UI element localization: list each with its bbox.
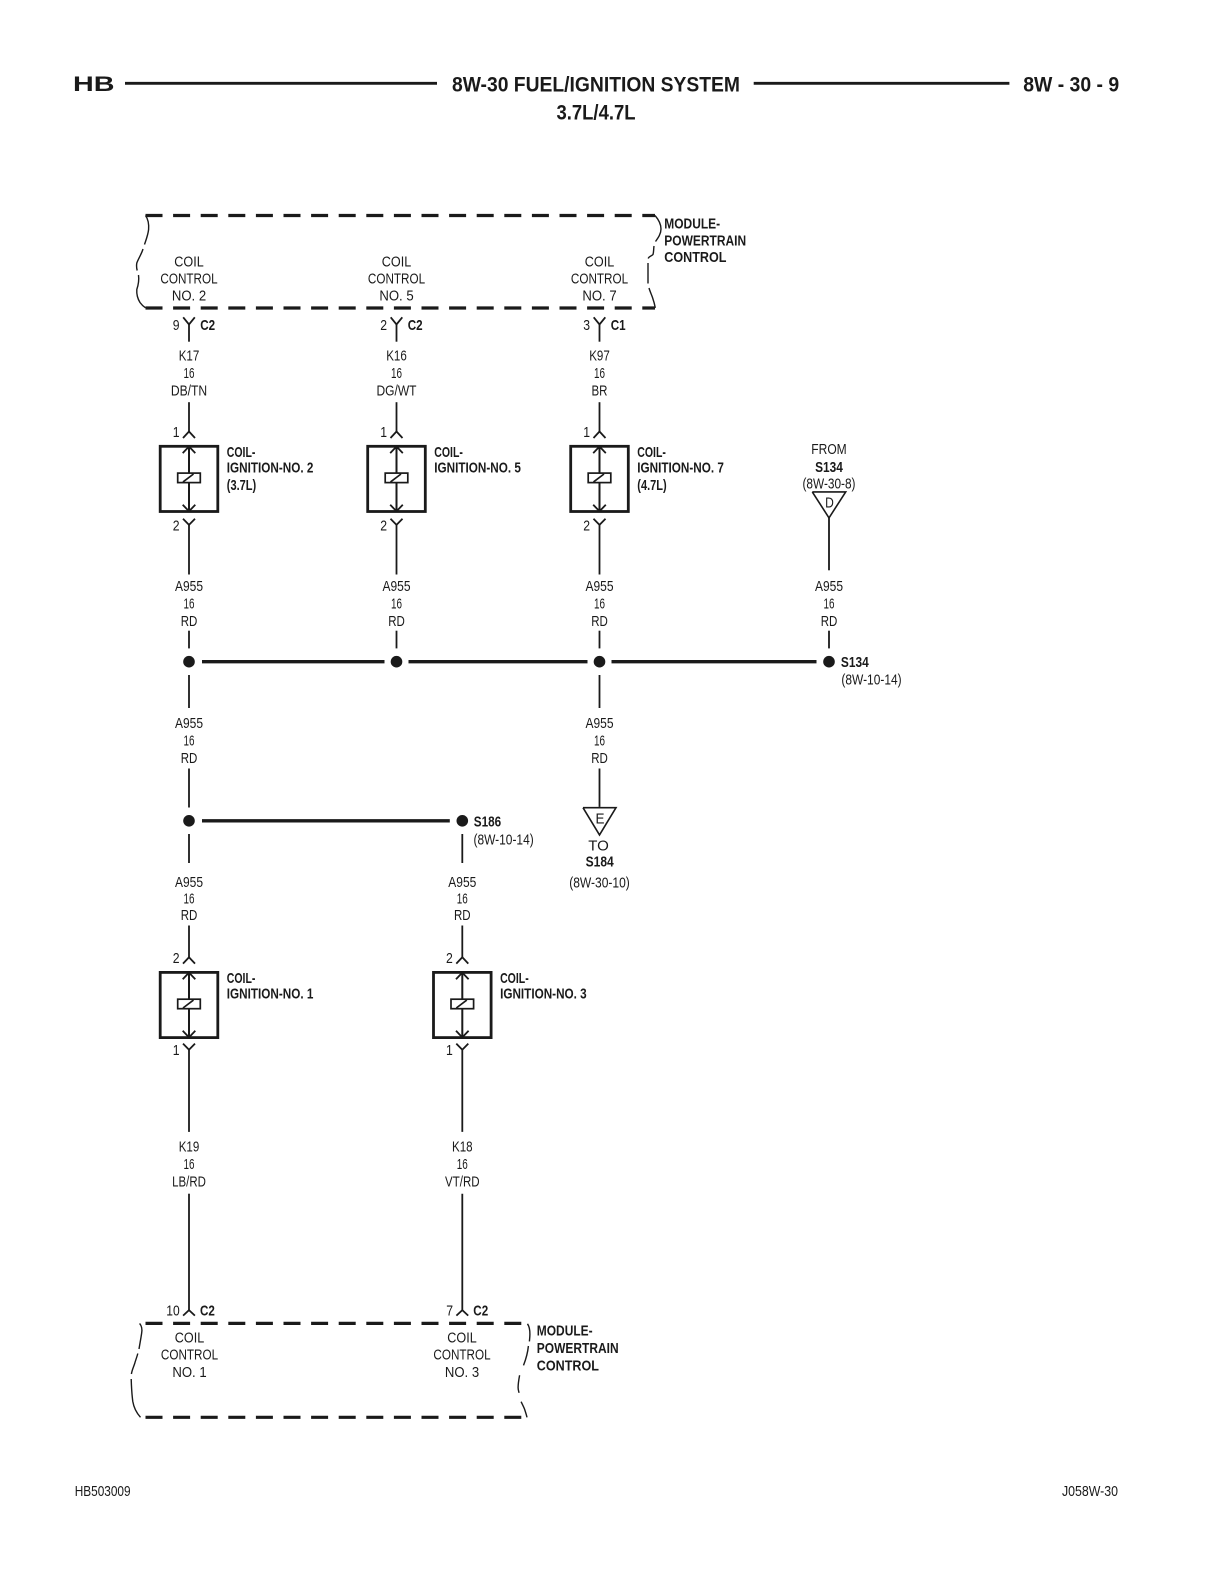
svg-text:COIL: COIL — [447, 1329, 476, 1346]
svg-text:K16: K16 — [386, 348, 407, 365]
svg-text:FROM: FROM — [811, 441, 846, 458]
svg-text:16: 16 — [457, 1156, 468, 1173]
svg-text:CONTROL: CONTROL — [664, 249, 726, 266]
svg-text:8W-30 FUEL/IGNITION SYSTEM: 8W-30 FUEL/IGNITION SYSTEM — [452, 73, 740, 97]
svg-text:J058W-30: J058W-30 — [1062, 1484, 1118, 1500]
svg-text:COIL-: COIL- — [637, 444, 666, 461]
svg-text:1: 1 — [446, 1042, 453, 1059]
svg-text:16: 16 — [184, 1156, 195, 1173]
svg-text:16: 16 — [391, 365, 402, 382]
svg-text:16: 16 — [184, 365, 195, 382]
svg-text:COIL-: COIL- — [500, 970, 529, 987]
svg-text:HB503009: HB503009 — [75, 1484, 131, 1500]
svg-text:CONTROL: CONTROL — [160, 270, 217, 287]
svg-text:MODULE-: MODULE- — [537, 1323, 593, 1340]
svg-text:HB: HB — [73, 72, 115, 96]
svg-text:10: 10 — [166, 1303, 179, 1320]
svg-text:7: 7 — [446, 1303, 453, 1320]
svg-text:COIL: COIL — [382, 253, 411, 270]
svg-text:(8W-10-14): (8W-10-14) — [841, 672, 901, 689]
svg-text:2: 2 — [380, 517, 387, 534]
svg-text:2: 2 — [446, 950, 453, 967]
svg-text:NO. 3: NO. 3 — [445, 1364, 479, 1381]
svg-text:RD: RD — [591, 750, 608, 767]
svg-text:POWERTRAIN: POWERTRAIN — [537, 1340, 619, 1357]
svg-text:9: 9 — [173, 317, 180, 334]
svg-text:COIL: COIL — [175, 1329, 204, 1346]
svg-text:A955: A955 — [815, 578, 843, 595]
svg-text:A955: A955 — [586, 715, 614, 732]
svg-text:16: 16 — [184, 596, 195, 613]
svg-text:RD: RD — [181, 907, 198, 924]
svg-text:C2: C2 — [200, 317, 215, 334]
svg-text:IGNITION-NO. 3: IGNITION-NO. 3 — [500, 986, 587, 1003]
svg-text:E: E — [596, 811, 605, 828]
svg-text:MODULE-: MODULE- — [664, 216, 720, 233]
svg-text:1: 1 — [380, 424, 387, 441]
svg-text:3.7L/4.7L: 3.7L/4.7L — [557, 101, 636, 125]
svg-text:RD: RD — [591, 613, 608, 630]
svg-text:DB/TN: DB/TN — [171, 383, 207, 400]
svg-text:2: 2 — [583, 517, 590, 534]
svg-text:COIL-: COIL- — [227, 970, 256, 987]
svg-text:A955: A955 — [448, 874, 476, 891]
svg-text:S134: S134 — [841, 654, 869, 671]
svg-text:NO. 5: NO. 5 — [379, 288, 413, 305]
svg-text:RD: RD — [821, 613, 838, 630]
svg-text:RD: RD — [181, 750, 198, 767]
svg-text:2: 2 — [380, 317, 387, 334]
svg-text:IGNITION-NO. 7: IGNITION-NO. 7 — [637, 459, 724, 476]
svg-text:1: 1 — [583, 424, 590, 441]
svg-text:A955: A955 — [586, 578, 614, 595]
svg-text:(8W-30-10): (8W-30-10) — [569, 875, 630, 892]
svg-text:1: 1 — [173, 424, 180, 441]
svg-text:NO. 7: NO. 7 — [582, 288, 616, 305]
svg-text:(8W-30-8): (8W-30-8) — [803, 476, 856, 493]
svg-text:(3.7L): (3.7L) — [227, 477, 256, 494]
svg-text:A955: A955 — [175, 874, 203, 891]
svg-text:A955: A955 — [175, 578, 203, 595]
svg-text:BR: BR — [592, 383, 608, 400]
svg-text:LB/RD: LB/RD — [172, 1174, 206, 1191]
svg-text:A955: A955 — [383, 578, 411, 595]
svg-text:16: 16 — [184, 891, 195, 908]
svg-text:16: 16 — [594, 596, 605, 613]
svg-text:16: 16 — [457, 891, 468, 908]
svg-text:K19: K19 — [179, 1139, 200, 1156]
svg-text:IGNITION-NO. 1: IGNITION-NO. 1 — [227, 986, 314, 1003]
svg-text:S186: S186 — [474, 813, 501, 830]
svg-text:K18: K18 — [452, 1139, 473, 1156]
svg-text:COIL: COIL — [585, 253, 614, 270]
svg-text:C1: C1 — [611, 317, 626, 334]
svg-text:COIL: COIL — [174, 253, 203, 270]
svg-text:3: 3 — [583, 317, 590, 334]
svg-text:8W - 30 - 9: 8W - 30 - 9 — [1023, 73, 1119, 97]
svg-text:NO. 1: NO. 1 — [172, 1364, 206, 1381]
svg-text:IGNITION-NO. 5: IGNITION-NO. 5 — [434, 459, 521, 476]
svg-text:RD: RD — [454, 907, 471, 924]
svg-text:S184: S184 — [586, 853, 615, 870]
svg-text:C2: C2 — [200, 1303, 215, 1320]
svg-text:VT/RD: VT/RD — [445, 1174, 480, 1191]
svg-text:CONTROL: CONTROL — [368, 270, 425, 287]
svg-text:COIL-: COIL- — [227, 444, 256, 461]
svg-text:CONTROL: CONTROL — [161, 1346, 218, 1363]
svg-text:D: D — [825, 495, 834, 512]
svg-text:S134: S134 — [815, 459, 843, 476]
svg-text:RD: RD — [181, 613, 198, 630]
svg-text:NO. 2: NO. 2 — [172, 288, 206, 305]
svg-text:16: 16 — [391, 596, 402, 613]
svg-text:16: 16 — [594, 733, 605, 750]
svg-text:16: 16 — [594, 365, 605, 382]
svg-text:K17: K17 — [179, 348, 200, 365]
svg-text:POWERTRAIN: POWERTRAIN — [664, 232, 746, 249]
svg-text:16: 16 — [824, 596, 835, 613]
svg-text:K97: K97 — [589, 348, 610, 365]
svg-text:16: 16 — [184, 733, 195, 750]
svg-text:C2: C2 — [408, 317, 423, 334]
svg-text:A955: A955 — [175, 715, 203, 732]
svg-text:C2: C2 — [473, 1303, 488, 1320]
svg-text:IGNITION-NO. 2: IGNITION-NO. 2 — [227, 459, 314, 476]
svg-text:DG/WT: DG/WT — [377, 383, 417, 400]
svg-text:CONTROL: CONTROL — [571, 270, 628, 287]
svg-text:1: 1 — [173, 1042, 180, 1059]
svg-text:COIL-: COIL- — [434, 444, 463, 461]
svg-text:CONTROL: CONTROL — [537, 1358, 599, 1375]
svg-text:(4.7L): (4.7L) — [637, 477, 666, 494]
svg-text:(8W-10-14): (8W-10-14) — [474, 831, 534, 848]
svg-text:RD: RD — [388, 613, 405, 630]
svg-text:CONTROL: CONTROL — [433, 1346, 490, 1363]
svg-text:2: 2 — [173, 517, 180, 534]
svg-text:TO: TO — [588, 838, 609, 855]
svg-text:2: 2 — [173, 950, 180, 967]
